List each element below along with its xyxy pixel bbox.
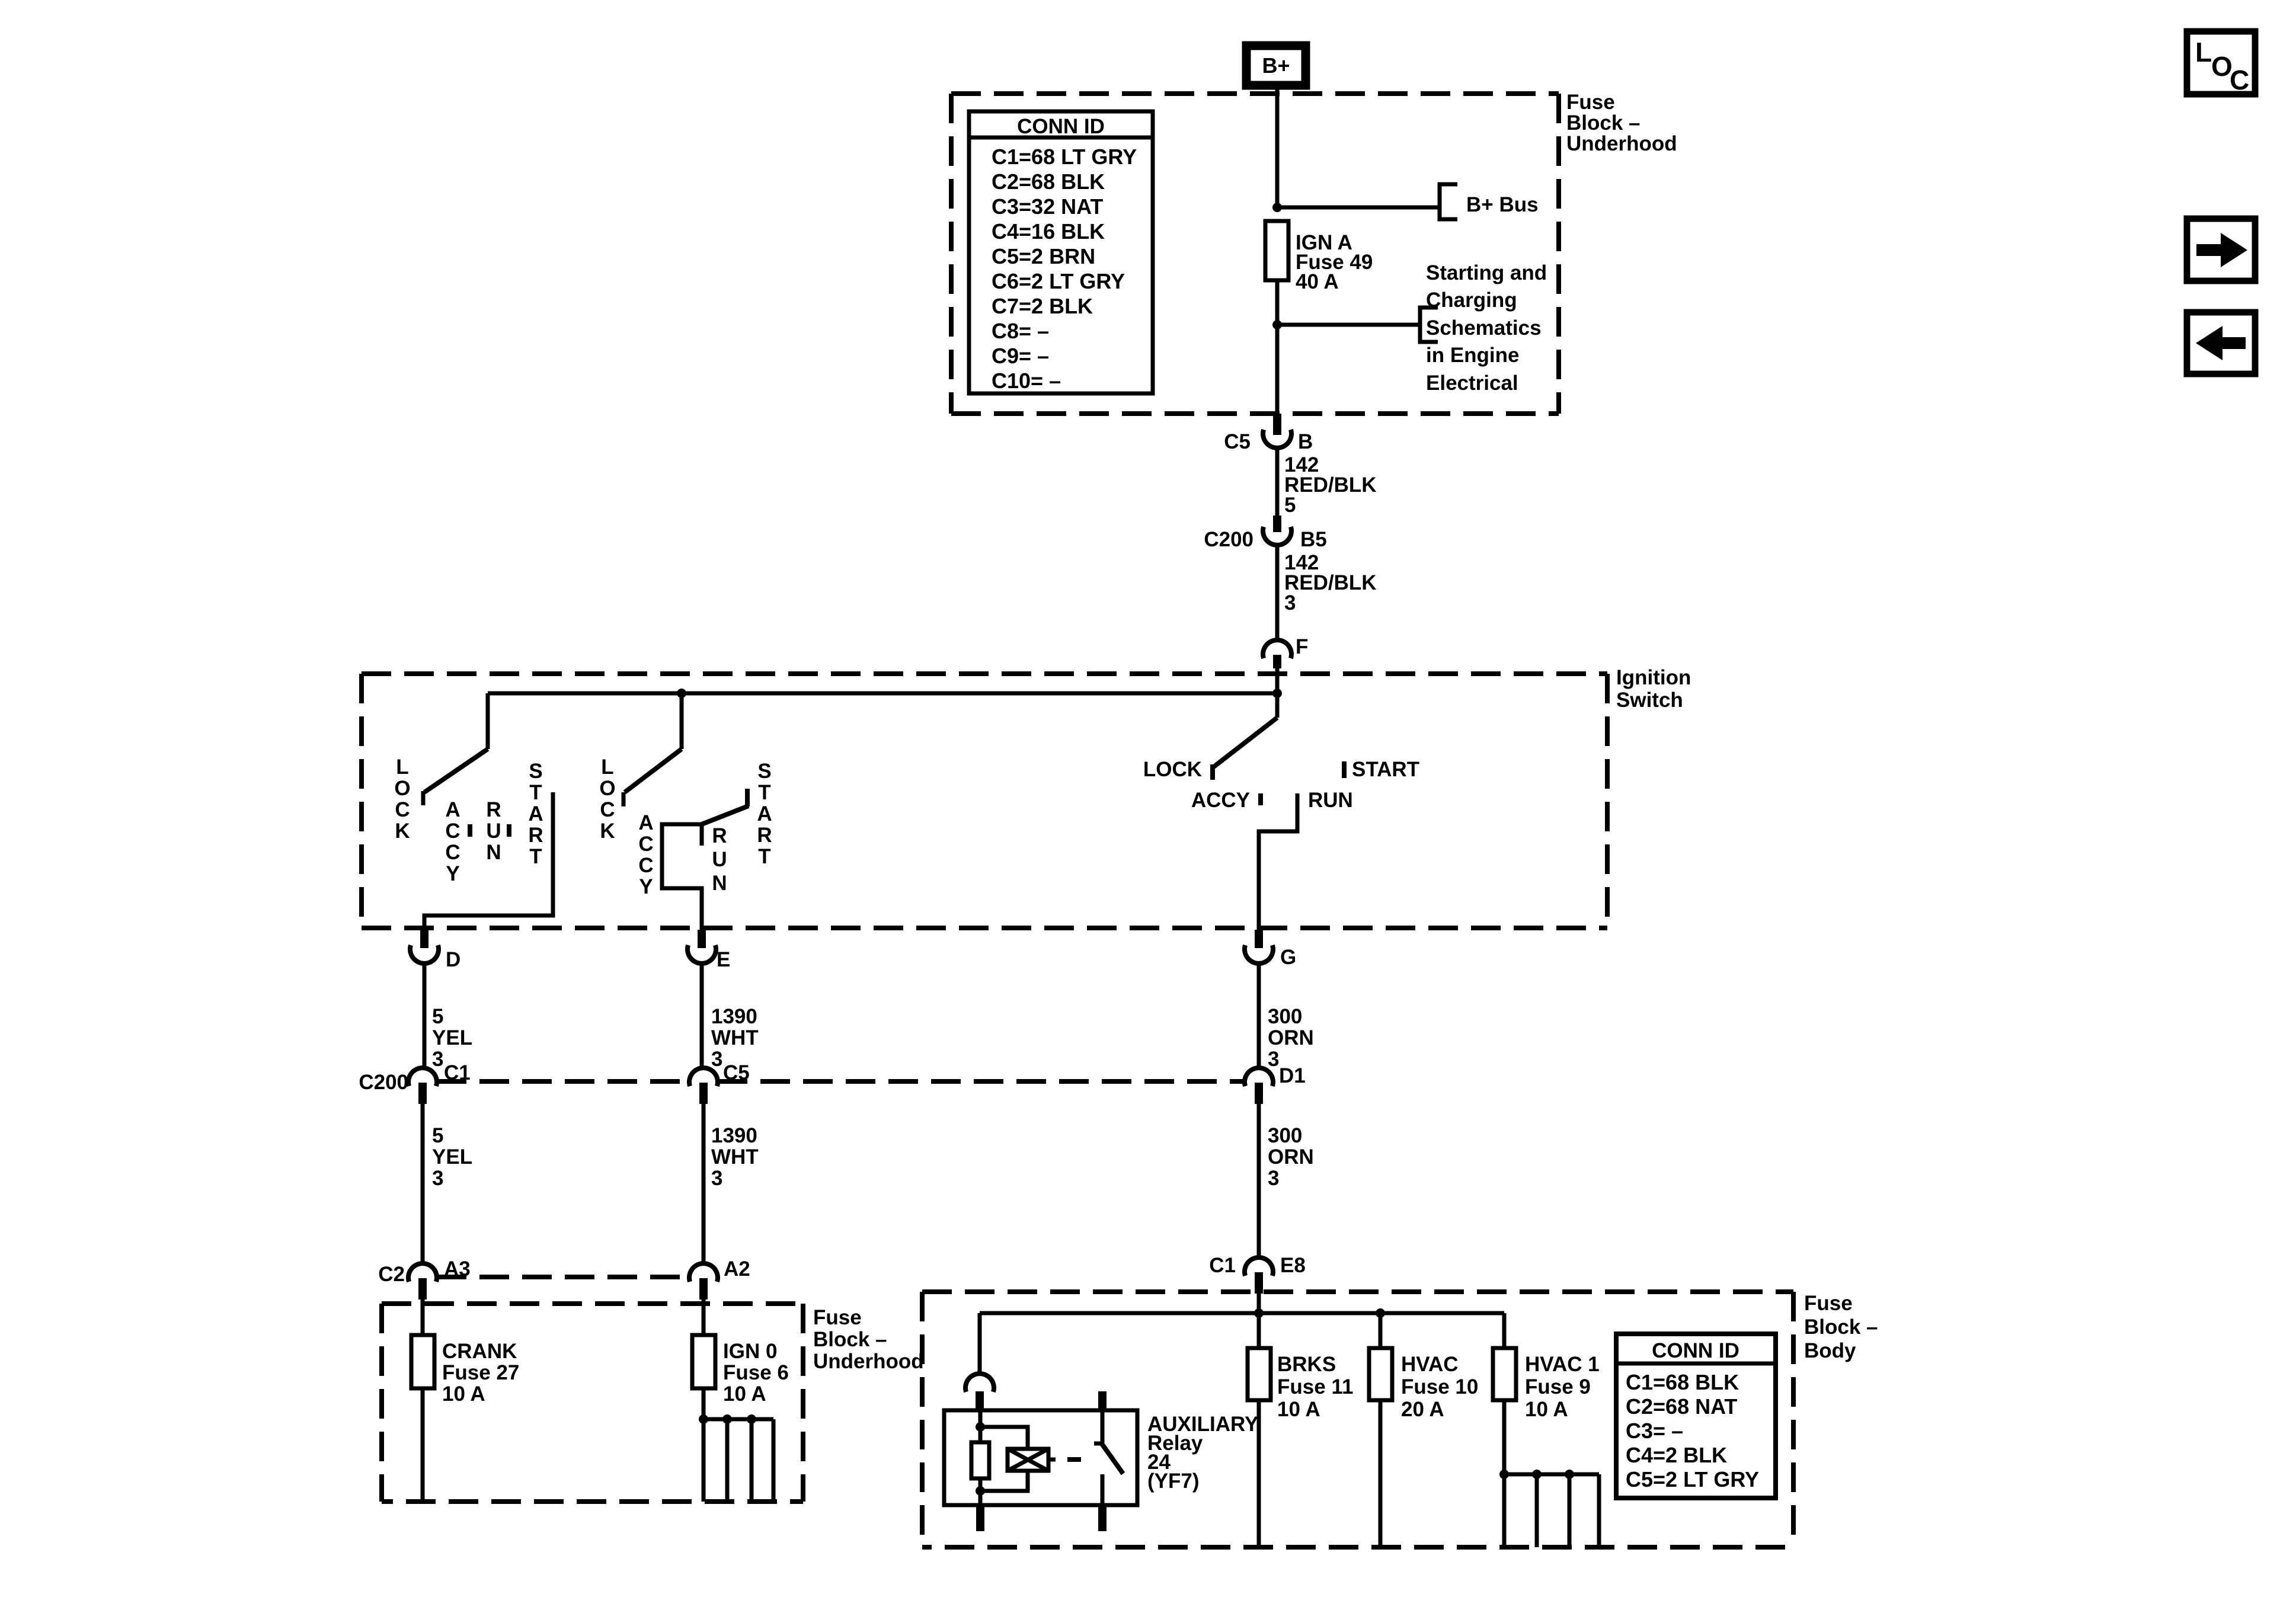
connector D — [410, 930, 461, 971]
svg-text:B: B — [1298, 430, 1313, 453]
svg-text:T: T — [529, 781, 542, 804]
svg-text:3: 3 — [711, 1048, 722, 1071]
wire HVAC down — [1379, 1400, 1383, 1547]
svg-text:YEL: YEL — [432, 1026, 472, 1049]
svg-text:E8: E8 — [1280, 1254, 1306, 1277]
switch1 START contact and output — [424, 792, 553, 932]
wire C200 to F — [1275, 546, 1280, 641]
switch2 LOCK contact tick — [622, 792, 626, 806]
node body bus HVAC — [1376, 1308, 1385, 1318]
wire label 142 RED/BLK 3 — [1284, 551, 1377, 614]
wire B+ to junction — [1275, 89, 1280, 209]
svg-text:Fuse 9: Fuse 9 — [1525, 1375, 1591, 1398]
switch2 feed drop — [680, 693, 684, 749]
svg-text:5: 5 — [432, 1124, 443, 1147]
svg-text:1390: 1390 — [711, 1005, 757, 1028]
svg-text:C: C — [600, 798, 615, 821]
svg-text:ORN: ORN — [1268, 1145, 1314, 1169]
C200 harness dashed line — [437, 1079, 1245, 1084]
switch3 LOCK contact tick — [1210, 764, 1215, 780]
previous page arrow box — [2187, 312, 2255, 374]
connector C200 pin C5 — [689, 1061, 750, 1104]
wire IGN 0 fuse down — [702, 1388, 706, 1419]
wire fuse to C5 — [1275, 280, 1280, 415]
wire C1 down — [421, 1104, 425, 1264]
wire F into ignition switch — [1275, 667, 1280, 694]
switch2 ACCY label — [638, 811, 653, 898]
fuse block underhood lower dashed box — [382, 1304, 803, 1502]
svg-text:S: S — [757, 760, 771, 783]
svg-text:Block –: Block – — [813, 1328, 887, 1351]
wire C5 to C200 — [1275, 449, 1280, 517]
next page arrow box — [2187, 219, 2255, 281]
IGN 0 load comb bus — [703, 1417, 773, 1422]
svg-text:RED/BLK: RED/BLK — [1284, 571, 1377, 594]
svg-text:Y: Y — [446, 862, 459, 885]
switch3 START contact tick — [1342, 761, 1347, 778]
svg-text:T: T — [758, 781, 770, 804]
connector C200 pin D1 — [1245, 1064, 1306, 1104]
svg-text:Fuse: Fuse — [813, 1306, 862, 1329]
switch2 RUN label — [712, 824, 727, 895]
svg-text:300: 300 — [1268, 1005, 1302, 1028]
battery positive terminal B+ — [1246, 46, 1306, 85]
svg-text:R: R — [528, 824, 543, 847]
svg-text:C2=68 NAT: C2=68 NAT — [1626, 1394, 1737, 1419]
svg-text:C4=16 BLK: C4=16 BLK — [992, 219, 1105, 244]
relay switch blade — [1101, 1443, 1123, 1474]
HVAC1 comb drop 3 — [1568, 1474, 1572, 1547]
svg-text:C: C — [395, 798, 410, 821]
wire G down — [1257, 964, 1261, 1068]
svg-text:YEL: YEL — [432, 1145, 472, 1169]
svg-text:C200: C200 — [1204, 528, 1253, 551]
svg-text:RUN: RUN — [1308, 789, 1353, 812]
svg-text:T: T — [529, 845, 542, 868]
switch3 START label — [1352, 758, 1419, 781]
connector C2 pin A3 — [378, 1257, 471, 1299]
switch1 RUN label — [486, 798, 501, 864]
svg-text:RED/BLK: RED/BLK — [1284, 473, 1377, 497]
svg-text:3: 3 — [432, 1048, 443, 1071]
svg-text:B5: B5 — [1300, 528, 1327, 551]
svg-text:C1: C1 — [444, 1061, 471, 1084]
node ignition bus right — [1272, 689, 1282, 698]
wire A3 to CRANK fuse — [421, 1299, 425, 1335]
svg-text:Charging: Charging — [1426, 289, 1517, 312]
svg-text:3: 3 — [711, 1167, 722, 1190]
node HVAC1 comb 1 — [1499, 1470, 1509, 1479]
svg-text:C: C — [445, 841, 460, 864]
fuse block body dashed box — [922, 1292, 1793, 1547]
switch1 feed drop — [486, 693, 490, 749]
svg-text:Block –: Block – — [1804, 1315, 1878, 1339]
wire C5 down — [702, 1104, 706, 1264]
connector C200 pin C1 — [359, 1061, 470, 1104]
B+ bus stub symbol — [1440, 184, 1539, 219]
C2 harness dashed line — [437, 1275, 689, 1279]
HVAC1 comb drop 1 — [1502, 1474, 1507, 1547]
svg-text:R: R — [486, 798, 501, 821]
svg-text:20 A: 20 A — [1401, 1398, 1444, 1421]
connector C5 pin B — [1224, 414, 1313, 453]
svg-text:A: A — [528, 802, 543, 825]
svg-text:C1=68 BLK: C1=68 BLK — [1626, 1370, 1739, 1394]
svg-text:A2: A2 — [724, 1257, 750, 1281]
svg-text:Block –: Block – — [1566, 111, 1641, 135]
svg-text:U: U — [712, 848, 727, 871]
wire A2 to IGN 0 fuse — [702, 1299, 706, 1335]
switch2 START label — [757, 760, 772, 868]
HVAC1 comb drop 4 — [1597, 1474, 1601, 1547]
connector G — [1245, 930, 1296, 969]
svg-text:Body: Body — [1804, 1339, 1856, 1362]
wire BRKS down — [1257, 1400, 1261, 1547]
svg-text:L: L — [601, 756, 613, 779]
svg-text:C9= –: C9= – — [992, 344, 1049, 368]
IGN 0 comb drop 1 — [702, 1419, 706, 1502]
node relay coil bottom — [976, 1486, 985, 1496]
switch2 wiper to START — [702, 806, 749, 824]
node IGN 0 comb 2 — [722, 1414, 732, 1424]
svg-text:C: C — [445, 820, 460, 843]
IGN 0 comb drop 4 — [772, 1419, 776, 1502]
svg-text:Switch: Switch — [1616, 689, 1683, 712]
svg-text:300: 300 — [1268, 1124, 1302, 1147]
svg-text:3: 3 — [432, 1167, 443, 1190]
svg-text:G: G — [1280, 946, 1296, 969]
CONN ID table underhood — [969, 111, 1153, 393]
svg-text:C1: C1 — [1209, 1254, 1236, 1277]
connector F — [1263, 635, 1308, 668]
wire label 300 ORN 3 lower — [1268, 1124, 1314, 1190]
starting and charging stub symbol — [1420, 261, 1547, 395]
relay coil branch — [980, 1427, 1028, 1491]
svg-text:A: A — [757, 802, 772, 825]
HVAC1 comb drop 2 — [1535, 1474, 1539, 1547]
svg-text:ORN: ORN — [1268, 1026, 1314, 1049]
wire D1 down — [1257, 1104, 1261, 1258]
svg-text:N: N — [486, 841, 501, 864]
switch2 START contact tick — [745, 789, 750, 806]
auxiliary relay label — [1147, 1413, 1258, 1493]
svg-text:Fuse: Fuse — [1804, 1292, 1853, 1315]
svg-text:C5: C5 — [723, 1061, 750, 1084]
switch2 LOCK label — [599, 756, 615, 843]
svg-text:3: 3 — [1284, 591, 1296, 614]
fuse HVAC Fuse 10 20A — [1369, 1348, 1478, 1421]
wire label 1390 WHT 3 lower — [711, 1124, 759, 1190]
switch1 wiper to LOCK — [424, 749, 488, 792]
switch3 ACCY contact tick — [1258, 793, 1263, 805]
svg-text:(YF7): (YF7) — [1147, 1470, 1200, 1493]
switch1 LOCK contact tick — [421, 791, 426, 805]
svg-text:CONN ID: CONN ID — [1652, 1339, 1739, 1362]
svg-text:10 A: 10 A — [723, 1382, 766, 1406]
body feed bus wire — [980, 1311, 1504, 1315]
svg-text:WHT: WHT — [711, 1145, 759, 1169]
switch3 LOCK label — [1143, 758, 1202, 781]
node HVAC1 comb 2 — [1532, 1470, 1542, 1479]
switch3 feed drop — [1275, 693, 1280, 718]
svg-text:10 A: 10 A — [1277, 1398, 1320, 1421]
svg-text:C6=2 LT GRY: C6=2 LT GRY — [992, 269, 1125, 293]
relay switch contact tick — [1094, 1442, 1102, 1446]
fuse IGN 0 Fuse 6 10A — [692, 1335, 789, 1406]
svg-text:C: C — [638, 833, 653, 856]
ignition switch dashed box — [362, 674, 1607, 928]
svg-text:C: C — [2230, 65, 2249, 95]
svg-text:A3: A3 — [444, 1257, 471, 1281]
svg-text:C5=2 LT GRY: C5=2 LT GRY — [1626, 1467, 1759, 1491]
switch1 START label — [528, 760, 543, 868]
svg-text:Fuse 10: Fuse 10 — [1401, 1375, 1478, 1398]
fuse block body label — [1804, 1292, 1878, 1362]
svg-text:C7=2 BLK: C7=2 BLK — [992, 294, 1093, 318]
wire bus to HVAC 1 fuse — [1502, 1313, 1507, 1348]
wire to B+ bus — [1277, 206, 1440, 210]
HVAC 1 load comb bus — [1504, 1473, 1599, 1477]
svg-text:L: L — [2195, 37, 2212, 68]
svg-text:Fuse 27: Fuse 27 — [442, 1361, 519, 1384]
svg-text:C5=2 BRN: C5=2 BRN — [992, 244, 1095, 268]
svg-text:Fuse 11: Fuse 11 — [1277, 1375, 1353, 1398]
svg-text:Y: Y — [639, 875, 653, 898]
fuse BRKS Fuse 11 10A — [1248, 1348, 1353, 1421]
svg-text:3: 3 — [1268, 1167, 1279, 1190]
svg-text:C5: C5 — [1224, 430, 1251, 453]
fuse IGN A Fuse 49 40A — [1265, 221, 1373, 293]
svg-text:A: A — [638, 811, 653, 834]
svg-text:Starting and: Starting and — [1426, 261, 1547, 284]
ignition feed bus wire — [488, 692, 1277, 696]
svg-text:D: D — [446, 948, 461, 971]
switch2 ACCY-RUN bridge — [662, 824, 702, 932]
wire label 5 YEL 3 lower — [432, 1124, 472, 1190]
connector C1 pin E8 — [1209, 1254, 1306, 1294]
wire label 142 RED/BLK 5 — [1284, 453, 1377, 517]
node B+ bus junction — [1272, 203, 1282, 212]
svg-text:K: K — [395, 820, 410, 843]
svg-text:1390: 1390 — [711, 1124, 757, 1147]
svg-text:D1: D1 — [1279, 1064, 1306, 1087]
svg-text:ACCY: ACCY — [1191, 789, 1250, 812]
IGN 0 comb drop 3 — [750, 1419, 754, 1502]
svg-text:C8= –: C8= – — [992, 319, 1049, 343]
svg-text:HVAC: HVAC — [1401, 1353, 1459, 1376]
svg-text:Underhood: Underhood — [813, 1350, 924, 1373]
wire CRANK fuse down — [421, 1388, 425, 1502]
svg-text:40 A: 40 A — [1296, 270, 1339, 293]
node ignition bus mid — [677, 689, 686, 698]
svg-text:K: K — [600, 820, 615, 843]
node relay coil top — [976, 1422, 985, 1432]
wire E8 to body bus — [1257, 1294, 1261, 1314]
svg-text:10 A: 10 A — [442, 1382, 485, 1406]
svg-text:B+ Bus: B+ Bus — [1466, 193, 1539, 216]
svg-text:N: N — [712, 872, 727, 895]
svg-text:Underhood: Underhood — [1566, 132, 1677, 155]
node body bus E8 — [1254, 1308, 1264, 1318]
node IGN 0 comb 1 — [699, 1414, 708, 1424]
IGN 0 comb drop 2 — [725, 1419, 730, 1502]
switch3 RUN contact and output — [1259, 793, 1297, 932]
svg-text:C2=68 BLK: C2=68 BLK — [992, 169, 1105, 194]
relay switch upper pin — [1098, 1391, 1107, 1410]
svg-text:O: O — [394, 777, 410, 800]
LOC reference box — [2187, 31, 2255, 95]
connector C200 pin B5 — [1204, 516, 1326, 551]
svg-text:5: 5 — [1284, 494, 1296, 517]
switch1 ACCY contact tick — [468, 824, 472, 837]
svg-text:C3= –: C3= – — [1626, 1419, 1683, 1443]
relay switch lower contact — [1101, 1474, 1105, 1505]
svg-text:10 A: 10 A — [1525, 1398, 1568, 1421]
svg-text:WHT: WHT — [711, 1026, 759, 1049]
auxiliary relay box — [944, 1410, 1137, 1505]
svg-text:LOCK: LOCK — [1143, 758, 1202, 781]
switch3 ACCY label — [1191, 789, 1250, 812]
svg-text:HVAC 1: HVAC 1 — [1525, 1353, 1600, 1376]
svg-text:IGN 0: IGN 0 — [723, 1340, 777, 1363]
svg-text:E: E — [717, 948, 730, 971]
svg-text:C: C — [638, 854, 653, 877]
relay coil feed wire — [978, 1410, 983, 1442]
fuse block underhood label — [1566, 91, 1677, 155]
svg-text:C2: C2 — [378, 1263, 405, 1286]
wire to charging schematic — [1277, 323, 1420, 327]
svg-text:Schematics: Schematics — [1426, 316, 1542, 340]
connector E — [687, 930, 730, 971]
svg-text:CONN ID: CONN ID — [1017, 115, 1105, 138]
svg-text:A: A — [445, 798, 460, 821]
relay switch lower pin — [1098, 1505, 1107, 1531]
connector C2 pin A2 — [689, 1257, 750, 1299]
svg-text:C3=32 NAT: C3=32 NAT — [992, 194, 1103, 219]
svg-text:T: T — [758, 845, 770, 868]
fuse HVAC 1 Fuse 9 10A — [1493, 1348, 1600, 1421]
switch2 wiper to LOCK — [625, 749, 682, 792]
node charging junction — [1272, 320, 1282, 329]
wire E down — [700, 964, 704, 1068]
svg-text:Fuse: Fuse — [1566, 91, 1615, 114]
svg-text:Electrical: Electrical — [1426, 372, 1518, 395]
wire HVAC 1 down — [1502, 1400, 1507, 1475]
svg-text:C1=68 LT GRY: C1=68 LT GRY — [992, 145, 1137, 169]
CONN ID table body — [1616, 1334, 1776, 1498]
svg-text:5: 5 — [432, 1005, 443, 1028]
svg-text:R: R — [757, 824, 772, 847]
switch3 wiper to LOCK — [1214, 718, 1277, 767]
svg-text:C4=2 BLK: C4=2 BLK — [1626, 1443, 1727, 1467]
node HVAC1 comb 3 — [1565, 1470, 1574, 1479]
relay resistor lower wire — [978, 1478, 983, 1505]
switch3 RUN label — [1308, 789, 1353, 812]
relay solenoid coil symbol — [1008, 1449, 1048, 1471]
node IGN 0 comb 3 — [747, 1414, 756, 1424]
svg-text:BRKS: BRKS — [1277, 1353, 1336, 1376]
relay switch upper contact — [1101, 1410, 1105, 1443]
relay actuation dashed link — [1048, 1458, 1081, 1462]
svg-text:C200: C200 — [359, 1071, 408, 1094]
wire bus to BRKS fuse — [1257, 1313, 1261, 1348]
switch1 LOCK label — [394, 756, 410, 843]
svg-text:C10= –: C10= – — [992, 369, 1061, 393]
svg-text:START: START — [1352, 758, 1419, 781]
switch1 ACCY label — [445, 798, 460, 885]
relay resistor — [971, 1442, 989, 1478]
svg-text:CRANK: CRANK — [442, 1340, 517, 1363]
fuse block underhood lower label — [813, 1306, 924, 1373]
svg-text:3: 3 — [1268, 1048, 1279, 1071]
relay branch connector — [965, 1374, 994, 1410]
fuse block underhood dashed box — [951, 94, 1559, 414]
svg-text:O: O — [599, 777, 615, 800]
relay branch drop — [978, 1313, 982, 1374]
svg-text:Fuse 6: Fuse 6 — [723, 1361, 789, 1384]
wire bus to HVAC fuse — [1379, 1313, 1383, 1348]
svg-text:F: F — [1296, 635, 1308, 658]
svg-text:U: U — [486, 820, 501, 843]
svg-text:S: S — [529, 760, 542, 783]
switch1 RUN contact tick — [507, 824, 511, 837]
wire D down — [423, 964, 427, 1068]
wire label 1390 WHT 3 upper — [711, 1005, 759, 1071]
svg-text:R: R — [712, 824, 727, 847]
wire label 300 ORN 3 upper — [1268, 1005, 1314, 1071]
fuse CRANK Fuse 27 10A — [411, 1335, 519, 1406]
wire label 5 YEL 3 upper — [432, 1005, 472, 1071]
ignition switch label — [1616, 666, 1691, 712]
svg-text:in Engine: in Engine — [1426, 344, 1520, 367]
relay coil lower pin — [976, 1505, 984, 1531]
svg-text:L: L — [396, 756, 408, 779]
svg-text:B+: B+ — [1262, 53, 1290, 78]
svg-text:Ignition: Ignition — [1616, 666, 1691, 689]
